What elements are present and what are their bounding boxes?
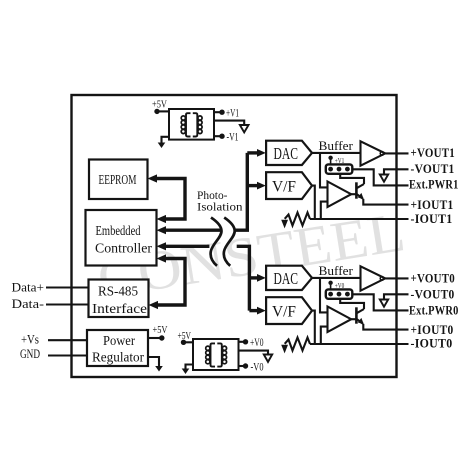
- svg-text:-IOUT0: -IOUT0: [411, 335, 453, 350]
- node +V1 dot: [219, 110, 224, 115]
- transformer T1 box: [169, 109, 214, 140]
- wire controller to lower channel bus: [164, 245, 209, 248]
- wire DAC0 out to op-amp + input: [320, 278, 327, 313]
- arrowhead into V/F1: [257, 182, 266, 190]
- wire JP0 to transistor collector: [340, 299, 364, 309]
- arrowhead into EEPROM: [148, 174, 158, 182]
- wire JP1 to Ext.PWR1: [352, 169, 408, 185]
- arrowhead into controller (RS-485 link): [157, 254, 167, 262]
- svg-text:-V1: -V1: [227, 132, 239, 144]
- wire T1 primary ground lead: [162, 137, 170, 144]
- node -V1 dot: [219, 134, 224, 139]
- transformer T0 primary winding: [211, 343, 216, 366]
- wire T0 +V0 lead: [239, 341, 244, 343]
- wire bus stub to V/F0: [249, 309, 258, 312]
- wire T0 -V0 lead: [239, 365, 244, 367]
- wire T1 -V1 lead: [214, 135, 220, 137]
- svg-text:DAC: DAC: [274, 269, 299, 288]
- main border frame: [72, 95, 397, 377]
- transistor Q1 base bar: [355, 182, 358, 198]
- svg-text:DAC: DAC: [274, 144, 299, 163]
- ground triangle (T0 center tap): [264, 355, 272, 362]
- transistor Q0 base bar: [355, 307, 358, 323]
- embedded controller box U3: [86, 210, 157, 266]
- svg-text:Power: Power: [103, 333, 135, 348]
- transformer T0 secondary winding: [217, 343, 222, 366]
- node buffer output circle (channel 0): [380, 277, 384, 281]
- svg-text:Ext.PWR0: Ext.PWR0: [409, 302, 459, 317]
- node JP1 +V1 dot: [328, 156, 332, 160]
- wire JP1 to transistor collector: [340, 174, 364, 184]
- svg-text:Ext.PWR1: Ext.PWR1: [409, 177, 459, 192]
- arrowhead into V/F0: [257, 307, 266, 315]
- svg-text:-V0: -V0: [251, 361, 264, 373]
- svg-text:Embedded: Embedded: [96, 223, 141, 238]
- wire op-amp A4 inverting input: [321, 327, 328, 344]
- op-amp buffer A3: [361, 266, 386, 290]
- wire DAC1 out to buffer: [312, 152, 360, 154]
- svg-text:+5V: +5V: [152, 99, 167, 111]
- ground arrow (T0 primary): [182, 369, 190, 375]
- svg-text:Regulator: Regulator: [92, 349, 144, 364]
- ground triangle (-VOUT1): [380, 175, 388, 182]
- wire -VOUT1 with ground stem: [384, 169, 409, 174]
- node +5V dot (T1 primary): [154, 109, 159, 114]
- V/F U7 pentagon: [266, 172, 312, 199]
- op-amp A4: [328, 307, 352, 333]
- wire DAC0 out to buffer: [312, 277, 360, 279]
- transformer T1 primary winding: [186, 113, 191, 136]
- wire rail -IOUT1: [310, 218, 409, 220]
- transistor Q0 collector: [356, 309, 364, 313]
- svg-text:+V0: +V0: [335, 281, 345, 290]
- wire T1 center tap: [214, 121, 244, 125]
- V/F U9 pentagon: [266, 297, 312, 324]
- svg-text:Interface: Interface: [92, 301, 147, 316]
- svg-text:+V1: +V1: [335, 156, 345, 165]
- wire Data+: [46, 286, 89, 288]
- wire DAC1 out to op-amp + input: [320, 153, 327, 188]
- ground arrow (T1 primary): [158, 143, 166, 149]
- jumper JP1: [326, 164, 353, 173]
- node +V0 dot: [243, 339, 248, 344]
- wire JP0 stem: [330, 285, 332, 290]
- jumper JP0 pin 3: [345, 292, 350, 297]
- wire buffer out +VOUT1: [385, 152, 408, 154]
- wire controller to RS-485: [156, 259, 185, 306]
- RS-485 interface box U4: [89, 280, 149, 318]
- transformer T1 secondary winding: [193, 113, 198, 136]
- ground arrow (R1): [281, 220, 288, 229]
- svg-text:RS-485: RS-485: [98, 284, 138, 299]
- wire op-amp A2 inverting input: [321, 202, 328, 219]
- resistor R1: [285, 213, 310, 226]
- wire V/F0 out to rail: [312, 311, 315, 344]
- arrowhead into DAC0: [257, 274, 266, 282]
- wire T0 primary ground lead: [186, 365, 194, 370]
- wire T1 +V1 lead: [214, 111, 220, 113]
- svg-text:GND: GND: [20, 347, 40, 361]
- wire T0 center tap: [239, 351, 269, 355]
- node +5V dot (T0 primary): [181, 340, 186, 345]
- node JP0 +V0 dot: [328, 281, 332, 285]
- DAC U6 pentagon: [266, 141, 312, 165]
- svg-text:+Vs: +Vs: [21, 332, 39, 346]
- wire bus stub to DAC0: [249, 276, 258, 279]
- jumper JP1 pin 1: [328, 167, 333, 172]
- transistor Q0 base wire: [351, 318, 356, 320]
- svg-text:-IOUT1: -IOUT1: [411, 211, 453, 226]
- wire JP1 stem: [330, 160, 332, 165]
- svg-text:+V1: +V1: [226, 108, 239, 120]
- transistor Q1 collector: [356, 184, 364, 188]
- wire rail -IOUT0: [310, 343, 409, 345]
- svg-text:Buffer: Buffer: [319, 138, 354, 153]
- wire +5V to T0: [184, 341, 194, 343]
- ground triangle (T1 center tap): [240, 125, 249, 132]
- transistor Q0 emitter: [356, 319, 363, 324]
- DAC U8 pentagon: [266, 266, 312, 290]
- power regulator box U5: [87, 330, 148, 366]
- wire EEPROM-controller bus: [154, 179, 185, 220]
- svg-text:V/F: V/F: [272, 304, 296, 321]
- EEPROM box U2: [89, 160, 148, 200]
- wire V/F1 out to rail: [312, 186, 315, 219]
- svg-text:Buffer: Buffer: [319, 263, 354, 278]
- transistor Q1 emitter arrow: [358, 193, 364, 200]
- svg-text:+VOUT0: +VOUT0: [411, 270, 456, 285]
- resistor R0: [285, 338, 310, 351]
- svg-text:+VOUT1: +VOUT1: [411, 145, 456, 160]
- jumper JP0 pin 2: [337, 292, 342, 297]
- ground arrow (regulator): [155, 366, 163, 372]
- wire power regulator ground: [148, 357, 159, 367]
- svg-text:Controller: Controller: [95, 241, 153, 256]
- node buffer output circle: [380, 152, 384, 156]
- wire bus stub to V/F1: [247, 184, 258, 187]
- wire GND: [48, 354, 87, 356]
- ground triangle (-VOUT0): [380, 300, 388, 307]
- svg-text:+V0: +V0: [250, 337, 264, 349]
- wire +5V to T1: [157, 110, 169, 112]
- arrowhead into controller (lower channel): [157, 242, 167, 250]
- wire JP0 to Ext.PWR0: [352, 294, 408, 310]
- jumper JP0: [326, 289, 353, 298]
- svg-text:+5V: +5V: [153, 324, 168, 336]
- op-amp buffer A1: [361, 141, 386, 165]
- transistor Q0 emitter arrow: [358, 318, 364, 325]
- node -V0 dot: [243, 363, 248, 368]
- isolation barrier curve left: [211, 218, 222, 266]
- wire bus stub to DAC1: [247, 151, 258, 154]
- jumper JP1 pin 3: [345, 167, 350, 172]
- svg-text:Isolation: Isolation: [197, 199, 243, 213]
- wire +Vs: [48, 339, 87, 341]
- arrowhead into RS-485: [149, 301, 159, 309]
- arrowhead into controller (from EEPROM bus): [157, 215, 167, 223]
- wire emitter to +IOUT1: [363, 199, 408, 205]
- svg-text:Data+: Data+: [12, 280, 45, 294]
- svg-text:-VOUT0: -VOUT0: [411, 286, 455, 301]
- watermark CONSTEEL: [93, 201, 409, 311]
- arrowhead into DAC1: [257, 149, 266, 157]
- wire Data-: [46, 303, 89, 305]
- node +5V dot (regulator out): [159, 335, 164, 340]
- op-amp A2: [328, 182, 352, 208]
- wire emitter to +IOUT0: [363, 324, 408, 330]
- isolation barrier curve right: [224, 218, 235, 266]
- svg-text:-VOUT1: -VOUT1: [411, 161, 455, 176]
- transistor Q1 base wire: [351, 193, 356, 195]
- svg-text:EEPROM: EEPROM: [99, 172, 137, 187]
- jumper JP1 pin 2: [337, 167, 342, 172]
- wire buffer out +VOUT0: [385, 277, 408, 279]
- svg-text:Data-: Data-: [12, 297, 45, 311]
- arrowhead into controller (upper channel): [157, 226, 167, 234]
- jumper JP0 pin 1: [328, 292, 333, 297]
- ground arrow (R0): [281, 345, 288, 354]
- transistor Q1 emitter: [356, 194, 363, 199]
- transformer T0 box: [193, 339, 239, 370]
- svg-text:V/F: V/F: [272, 179, 296, 196]
- wire controller to upper channel bus: [164, 228, 221, 231]
- wire power regulator +5V out: [148, 337, 162, 339]
- wire -VOUT0 with ground stem: [384, 294, 409, 299]
